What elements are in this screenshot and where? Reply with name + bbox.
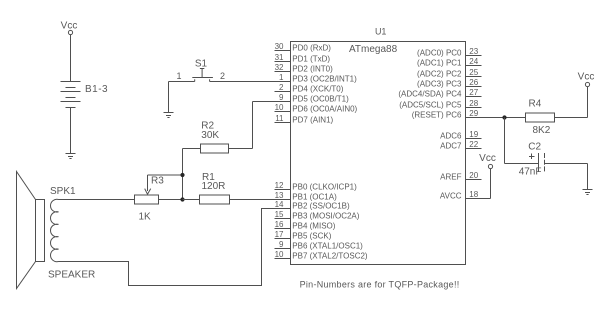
pin 13 PB1 (OC1A)	[275, 191, 338, 202]
svg-text:PD7 (AIN1): PD7 (AIN1)	[292, 116, 333, 125]
svg-text:SPEAKER: SPEAKER	[48, 269, 95, 280]
pin 20 AREF	[440, 171, 481, 182]
svg-text:(ADC1) PC1: (ADC1) PC1	[417, 59, 462, 68]
wire down to ground (S1)	[168, 82, 170, 113]
svg-text:120R: 120R	[202, 181, 226, 192]
svg-text:8K2: 8K2	[533, 125, 551, 136]
svg-text:(RESET) PC6: (RESET) PC6	[412, 111, 462, 120]
pin 10 PD6 (OC0A/AIN0)	[275, 103, 358, 114]
wire Vcc to battery B1-3 positive plate	[70, 35, 72, 82]
pin 25 (ADC2) PC2	[417, 68, 481, 79]
svg-text:30K: 30K	[201, 130, 219, 141]
svg-text:11: 11	[275, 114, 284, 123]
wire up to MCU pin 9 PD5	[252, 102, 254, 149]
svg-text:C2: C2	[528, 141, 541, 152]
svg-text:Vcc: Vcc	[578, 72, 595, 83]
svg-text:(ADC2) PC2: (ADC2) PC2	[417, 70, 462, 79]
wire R3 right to junction	[159, 199, 183, 201]
svg-text:PD1 (TxD): PD1 (TxD)	[292, 55, 330, 64]
battery B1-3 (3 cells)	[61, 82, 81, 108]
svg-text:10: 10	[275, 250, 284, 259]
wire R2 to junction node	[182, 149, 184, 200]
power symbol Vcc (AVCC)	[479, 153, 496, 169]
svg-text:22: 22	[469, 140, 478, 149]
svg-text:25: 25	[469, 68, 478, 77]
svg-text:PB1 (OC1A): PB1 (OC1A)	[292, 193, 337, 202]
svg-text:PD5 (OC0B/T1): PD5 (OC0B/T1)	[292, 95, 349, 104]
svg-text:18: 18	[469, 190, 478, 199]
pin 11 PD7 (AIN1)	[275, 114, 334, 125]
pin 15 PB3 (MOSI/OC2A)	[275, 210, 360, 221]
wire R4 right to Vcc	[555, 117, 588, 119]
svg-text:47nF: 47nF	[519, 167, 542, 178]
wire to MCU pin 9 PD5	[253, 101, 291, 103]
svg-text:1: 1	[279, 73, 284, 82]
svg-text:PD0 (RxD): PD0 (RxD)	[292, 44, 331, 53]
resistor R4	[526, 113, 555, 122]
pin 28 (ADC5/SCL) PC5	[399, 99, 481, 110]
svg-text:S1: S1	[195, 59, 208, 70]
pin 23 (ADC0) PC0	[417, 47, 481, 58]
svg-text:30: 30	[275, 42, 284, 51]
speaker SPK1 coil	[51, 199, 59, 261]
svg-text:PB6 (XTAL1/OSC1): PB6 (XTAL1/OSC1)	[292, 242, 363, 251]
svg-text:PB5 (SCK): PB5 (SCK)	[292, 232, 331, 241]
svg-text:13: 13	[275, 191, 284, 200]
svg-text:R4: R4	[529, 99, 542, 110]
svg-text:(ADC0) PC0: (ADC0) PC0	[417, 49, 462, 58]
wire to C2 plus plate	[505, 163, 539, 165]
svg-text:PB3 (MOSI/OC2A): PB3 (MOSI/OC2A)	[292, 212, 359, 221]
wire R2 left	[183, 148, 201, 150]
svg-text:PD4 (XCK/T0): PD4 (XCK/T0)	[292, 85, 343, 94]
svg-text:10: 10	[275, 103, 284, 112]
pin 30 PD0 (RxD)	[275, 42, 332, 53]
wire R1 right to MCU pin 13 PB1	[230, 199, 291, 201]
svg-text:23: 23	[469, 47, 478, 56]
wire up to Vcc (R4)	[587, 87, 589, 118]
svg-text:2: 2	[279, 83, 284, 92]
svg-text:(ADC3) PC3: (ADC3) PC3	[417, 80, 462, 89]
svg-text:B1-3: B1-3	[85, 84, 108, 95]
wire C2 right	[545, 163, 588, 165]
svg-text:PD3 (OC2B/INT1): PD3 (OC2B/INT1)	[292, 75, 357, 84]
svg-text:29: 29	[469, 109, 478, 118]
junction dot (R3 wiper / R2)	[180, 173, 184, 177]
svg-text:24: 24	[469, 57, 478, 66]
potentiometer R3 wiper arrow	[145, 175, 183, 194]
svg-text:PB2 (SS/OC1B): PB2 (SS/OC1B)	[292, 202, 350, 211]
wire down to ground (C2)	[587, 164, 589, 190]
svg-text:(ADC5/SCL) PC5: (ADC5/SCL) PC5	[399, 101, 462, 110]
svg-text:(ADC4/SDA) PC4: (ADC4/SDA) PC4	[398, 90, 462, 99]
svg-text:32: 32	[275, 63, 284, 72]
ground (C2)	[583, 190, 593, 195]
svg-text:Pin-Numbers are for TQFP-Packa: Pin-Numbers are for TQFP-Package!!	[300, 280, 460, 290]
svg-text:1K: 1K	[139, 212, 152, 223]
svg-text:20: 20	[469, 171, 478, 180]
svg-text:SPK1: SPK1	[50, 186, 76, 197]
svg-text:PD2 (INT0): PD2 (INT0)	[292, 65, 333, 74]
svg-text:16: 16	[275, 220, 284, 229]
pushbutton S1	[192, 69, 213, 82]
wire Vcc down to AVCC	[490, 169, 492, 199]
pin 9 PD5 (OC0B/T1)	[275, 93, 350, 104]
pin 22 ADC7	[440, 140, 481, 151]
speaker SPK1 cone	[17, 172, 36, 289]
pin 1 PD3 (OC2B/INT1)	[275, 73, 358, 84]
wire speaker bottom to MCU pin 14 PB2	[59, 209, 291, 286]
pin 31 PD1 (TxD)	[275, 53, 331, 64]
capacitor C2 (polarized)	[529, 153, 545, 173]
junction dot (RESET / R4 / C2)	[502, 115, 506, 119]
svg-text:Vcc: Vcc	[479, 153, 496, 164]
svg-text:PB4 (MISO): PB4 (MISO)	[292, 222, 335, 231]
svg-text:12: 12	[275, 181, 284, 190]
junction dot (R3 / R1 / R2)	[180, 197, 184, 201]
pin 2 PD4 (XCK/T0)	[275, 83, 344, 94]
pin 9 PB6 (XTAL1/OSC1)	[275, 240, 364, 251]
svg-text:1: 1	[176, 71, 181, 81]
pin 32 PD2 (INT0)	[275, 63, 334, 74]
pin 18 AVCC	[440, 190, 482, 201]
svg-text:2: 2	[220, 71, 225, 81]
resistor R2	[201, 144, 229, 153]
wire AVCC pin 18	[466, 198, 491, 200]
resistor R1	[200, 195, 230, 204]
svg-text:ADC6: ADC6	[440, 132, 462, 141]
svg-text:Vcc: Vcc	[61, 21, 78, 32]
pin 14 PB2 (SS/OC1B)	[275, 200, 350, 211]
svg-text:28: 28	[469, 99, 478, 108]
svg-text:PD6 (OC0A/AIN0): PD6 (OC0A/AIN0)	[292, 105, 357, 114]
pin 27 (ADC4/SDA) PC4	[398, 88, 481, 99]
ground (S1)	[164, 113, 174, 118]
wire S1 pin2 to MCU pin 1 PD3	[210, 81, 291, 83]
power symbol Vcc (battery positive)	[61, 21, 78, 35]
svg-text:27: 27	[469, 88, 478, 97]
svg-text:AREF: AREF	[440, 173, 461, 182]
svg-text:15: 15	[275, 210, 284, 219]
svg-text:31: 31	[275, 53, 284, 62]
pin 12 PB0 (CLKO/ICP1)	[275, 181, 358, 192]
wire speaker top to potentiometer R3	[59, 199, 135, 201]
wire S1 pin1 to ground	[169, 81, 195, 83]
wire MCU pin 29 RESET to R4	[466, 117, 526, 119]
svg-text:ADC7: ADC7	[440, 142, 462, 151]
svg-text:19: 19	[469, 130, 478, 139]
wire junction to R1 left	[183, 199, 200, 201]
wire R2 right	[229, 148, 253, 150]
svg-text:ATmega88: ATmega88	[349, 44, 398, 55]
svg-text:14: 14	[275, 200, 284, 209]
svg-text:PB7 (XTAL2/TOSC2): PB7 (XTAL2/TOSC2)	[292, 252, 368, 261]
pin 24 (ADC1) PC1	[417, 57, 481, 68]
pin 26 (ADC3) PC3	[417, 78, 481, 89]
svg-text:AVCC: AVCC	[440, 192, 462, 201]
pin 16 PB4 (MISO)	[275, 220, 336, 231]
IC U1 ATmega88 body	[291, 42, 466, 265]
svg-text:9: 9	[279, 240, 284, 249]
ground (battery)	[66, 154, 76, 159]
wire junction down to C2	[504, 118, 506, 164]
pin 17 PB5 (SCK)	[275, 230, 332, 241]
svg-text:U1: U1	[375, 27, 387, 37]
svg-text:9: 9	[279, 93, 284, 102]
pin 29 (RESET) PC6	[412, 109, 482, 120]
svg-text:R3: R3	[151, 176, 164, 187]
power symbol Vcc (reset pullup)	[578, 72, 595, 87]
pin 19 ADC6	[440, 130, 481, 141]
svg-text:17: 17	[275, 230, 284, 239]
pin 10 PB7 (XTAL2/TOSC2)	[275, 250, 368, 261]
potentiometer R3 body	[135, 195, 159, 204]
wire battery negative to ground	[70, 108, 72, 154]
speaker SPK1 magnet body	[36, 200, 45, 262]
svg-text:PB0 (CLKO/ICP1): PB0 (CLKO/ICP1)	[292, 183, 357, 192]
svg-text:26: 26	[469, 78, 478, 87]
